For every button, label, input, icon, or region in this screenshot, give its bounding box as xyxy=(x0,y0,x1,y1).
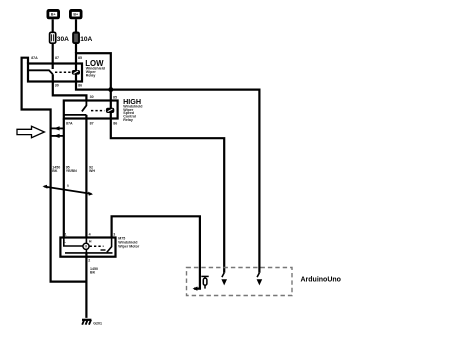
svg-text:G201: G201 xyxy=(93,321,102,325)
svg-text:BK: BK xyxy=(52,169,58,173)
svg-text:3: 3 xyxy=(113,232,115,236)
svg-text:2: 2 xyxy=(88,259,90,263)
svg-text:BK: BK xyxy=(90,271,96,275)
svg-text:87: 87 xyxy=(90,121,94,125)
svg-text:86: 86 xyxy=(113,122,117,126)
svg-text:4: 4 xyxy=(89,232,91,236)
svg-text:Relay: Relay xyxy=(123,118,133,122)
svg-text:H: H xyxy=(89,240,92,244)
svg-text:85: 85 xyxy=(78,56,82,60)
svg-text:10A: 10A xyxy=(80,36,92,43)
svg-text:85: 85 xyxy=(113,96,117,100)
svg-text:86: 86 xyxy=(78,84,82,88)
svg-text:30: 30 xyxy=(55,83,59,87)
svg-text:Relay: Relay xyxy=(86,74,96,78)
svg-text:87A: 87A xyxy=(66,121,73,125)
svg-text:M: M xyxy=(85,245,88,249)
svg-text:WH: WH xyxy=(89,169,95,173)
svg-text:YE/BN: YE/BN xyxy=(66,169,77,173)
svg-text:1: 1 xyxy=(65,232,67,236)
svg-text:ArduinoUno: ArduinoUno xyxy=(301,277,341,284)
svg-text:30A: 30A xyxy=(57,36,69,43)
svg-text:9: 9 xyxy=(67,184,69,188)
svg-text:B+: B+ xyxy=(73,13,78,17)
svg-text:30: 30 xyxy=(90,95,94,99)
svg-text:Wiper Motor: Wiper Motor xyxy=(118,244,140,248)
svg-text:87A: 87A xyxy=(31,56,38,60)
svg-text:B+: B+ xyxy=(51,13,56,17)
svg-text:87: 87 xyxy=(55,56,59,60)
